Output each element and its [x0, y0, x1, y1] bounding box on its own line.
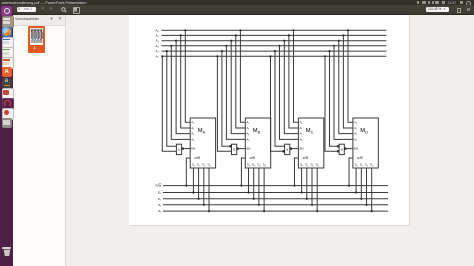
svg-text:A1: A1 — [247, 126, 250, 131]
svg-text:D1: D1 — [252, 163, 255, 168]
svg-text:A1: A1 — [191, 126, 194, 131]
svg-text:R/W: R/W — [156, 184, 162, 188]
svg-text:D0: D0 — [300, 163, 303, 168]
svg-text:A1: A1 — [354, 126, 357, 131]
svg-text:D1: D1 — [360, 163, 363, 168]
svg-text:&: & — [286, 148, 288, 152]
svg-text:A3: A3 — [300, 137, 303, 142]
svg-text:D2: D2 — [202, 163, 205, 168]
svg-text:A3: A3 — [156, 44, 160, 49]
svg-text:D2: D2 — [158, 203, 162, 208]
svg-text:D3: D3 — [158, 209, 162, 214]
svg-text:A2: A2 — [191, 132, 194, 137]
svg-text:A1: A1 — [156, 33, 160, 38]
svg-text:R/W: R/W — [195, 156, 201, 160]
svg-text:&: & — [178, 148, 180, 152]
svg-text:A3: A3 — [354, 137, 357, 142]
svg-text:D0: D0 — [158, 191, 162, 196]
svg-text:MC: MC — [306, 128, 314, 134]
svg-text:A3: A3 — [191, 137, 194, 142]
svg-text:A0: A0 — [300, 120, 303, 125]
svg-text:MB: MB — [253, 128, 261, 134]
svg-text:D3: D3 — [263, 163, 266, 168]
svg-text:A2: A2 — [300, 132, 303, 137]
svg-text:A2: A2 — [156, 39, 160, 44]
svg-text:A4: A4 — [156, 49, 160, 54]
svg-text:D0: D0 — [247, 163, 250, 168]
svg-text:EN: EN — [191, 147, 195, 151]
svg-text:R/W: R/W — [303, 156, 309, 160]
svg-text:MD: MD — [360, 128, 368, 134]
svg-text:D0: D0 — [355, 163, 358, 168]
svg-text:D3: D3 — [316, 163, 319, 168]
svg-text:A1: A1 — [300, 126, 303, 131]
svg-text:D1: D1 — [158, 197, 162, 202]
svg-text:&: & — [233, 148, 235, 152]
svg-text:&: & — [341, 148, 343, 152]
svg-text:D1: D1 — [197, 163, 200, 168]
svg-text:D1: D1 — [305, 163, 308, 168]
svg-text:A0: A0 — [156, 28, 160, 33]
svg-text:A3: A3 — [247, 137, 250, 142]
svg-text:D2: D2 — [365, 163, 368, 168]
svg-text:R/W: R/W — [357, 156, 363, 160]
svg-text:EN: EN — [300, 147, 304, 151]
svg-text:A2: A2 — [247, 132, 250, 137]
svg-text:EN: EN — [354, 147, 358, 151]
svg-text:A2: A2 — [354, 132, 357, 137]
svg-text:A5: A5 — [156, 54, 160, 59]
svg-text:D3: D3 — [208, 163, 211, 168]
svg-text:D2: D2 — [311, 163, 314, 168]
svg-text:D2: D2 — [258, 163, 261, 168]
svg-text:D0: D0 — [192, 163, 195, 168]
svg-text:D3: D3 — [370, 163, 373, 168]
svg-text:A0: A0 — [191, 120, 194, 125]
svg-text:R/W: R/W — [250, 156, 256, 160]
svg-text:MA: MA — [198, 128, 206, 134]
svg-text:A0: A0 — [354, 120, 357, 125]
svg-text:A0: A0 — [247, 120, 250, 125]
svg-text:EN: EN — [247, 147, 251, 151]
